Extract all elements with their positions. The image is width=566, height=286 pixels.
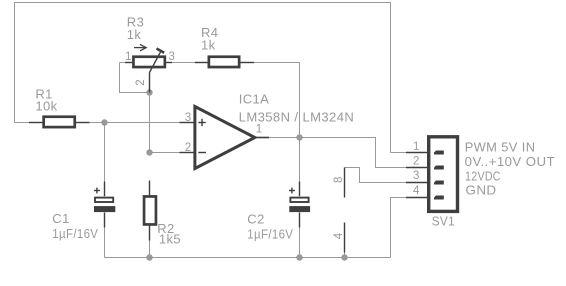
node R3 pin1 / wiper junction — [146, 89, 152, 95]
svg-text:C1: C1 — [52, 211, 69, 226]
wire ground rail — [105, 257, 391, 259]
wire IC pin4 to rail — [344, 253, 346, 258]
wire IC pin8 to SV1 pin3 (12VDC) — [345, 168, 407, 183]
wire C1 top branch — [104, 123, 106, 182]
wire C2 bottom to rail — [299, 228, 301, 258]
svg-text:1: 1 — [125, 51, 131, 63]
wire R3 pin1 lead stub — [120, 62, 134, 64]
svg-text:2: 2 — [185, 142, 191, 154]
svg-text:LM358N / LM324N: LM358N / LM324N — [239, 109, 354, 124]
node wiper / -in / R2 junction — [146, 149, 152, 155]
trimmer R3 — [125, 44, 172, 92]
svg-text:PWM 5V IN: PWM 5V IN — [465, 140, 536, 155]
svg-text:2: 2 — [413, 156, 419, 168]
svg-text:3: 3 — [185, 112, 191, 124]
wire R3 to R4 — [165, 62, 195, 64]
wire C1 bottom to ground rail — [104, 228, 106, 258]
svg-text:4: 4 — [333, 232, 345, 239]
svg-text:1k: 1k — [201, 38, 216, 53]
wire top frame (PWM net) — [15, 3, 391, 153]
svg-text:1k: 1k — [127, 27, 142, 42]
svg-text:3: 3 — [413, 170, 419, 182]
wire R2 bottom to rail — [149, 241, 151, 258]
svg-text:2: 2 — [135, 79, 147, 85]
svg-text:IC1A: IC1A — [239, 92, 270, 107]
wire output node to SV1 pin2 — [300, 138, 407, 168]
connector SV1 — [406, 137, 458, 212]
svg-text:12VDC: 12VDC — [465, 168, 501, 183]
node C2 / rail junction — [296, 254, 302, 260]
wire wiper down to -in — [149, 93, 151, 153]
wire -in row to op-amp — [150, 152, 180, 154]
resistor R4 — [195, 57, 254, 67]
node R1 / C1 / +in junction — [101, 119, 107, 125]
op-amp IC1A — [180, 107, 270, 169]
svg-text:C2: C2 — [247, 212, 264, 227]
resistor R1 — [29, 117, 90, 127]
wire R1 right to op-amp +in — [90, 122, 180, 124]
capacitor C1 — [94, 182, 115, 228]
wire R3 pin1 loop to wiper — [120, 63, 150, 93]
wire op-amp output to node — [269, 137, 300, 139]
svg-text:1k5: 1k5 — [159, 232, 181, 247]
svg-text:1: 1 — [256, 124, 262, 136]
wire R4 right down to output node — [254, 63, 299, 182]
power pin 8 of IC1 — [344, 168, 346, 198]
svg-text:4: 4 — [413, 185, 420, 197]
node output / R4 / C2 / OUT junction — [296, 134, 302, 140]
svg-text:0V..+10V OUT: 0V..+10V OUT — [465, 154, 555, 169]
resistor R2 — [144, 181, 156, 241]
svg-text:GND: GND — [466, 183, 497, 198]
svg-text:1µF/16V: 1µF/16V — [52, 226, 98, 241]
svg-text:1: 1 — [413, 141, 419, 153]
svg-text:3: 3 — [169, 51, 175, 63]
wire R1 left — [15, 122, 30, 124]
svg-text:10k: 10k — [35, 98, 57, 113]
node R2 / rail junction — [146, 254, 152, 260]
capacitor C2 — [289, 182, 310, 228]
svg-text:8: 8 — [333, 177, 345, 183]
node IC pin4 / rail junction — [341, 254, 347, 260]
svg-text:SV1: SV1 — [432, 213, 455, 228]
wire SV1 pin1 to frame — [391, 152, 407, 154]
svg-text:1µF/16V: 1µF/16V — [247, 226, 293, 241]
wire SV1 pin4 to ground rail — [391, 198, 407, 258]
power pin 4 of IC1 — [344, 223, 346, 253]
